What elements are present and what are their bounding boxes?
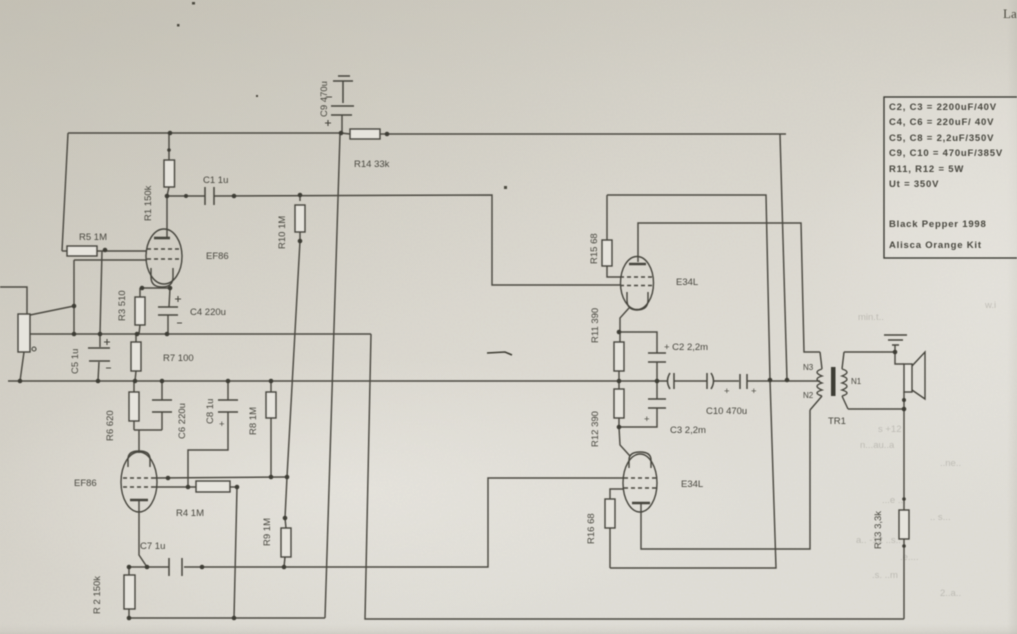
svg-text:R11 390: R11 390 [590, 308, 601, 343]
junction node 341,133 [339, 131, 344, 136]
tube V4 anode bar [632, 502, 650, 505]
junction node 105,250 [103, 248, 108, 253]
svg-text:R3 510: R3 510 [117, 290, 128, 321]
junction node 658,381 [655, 379, 660, 384]
junction node 167,196 [165, 194, 170, 199]
wire R4 node down to bus A [234, 487, 237, 618]
junction node 20,381 [18, 379, 23, 384]
wire long vertical from C9 node to bottom bus A [325, 134, 340, 618]
junction node 147,567 [145, 565, 150, 570]
wire R6 bottom lead [133, 421, 135, 430]
ground bus between C10 plates [714, 380, 739, 382]
vacuum tubes [121, 229, 657, 512]
svg-text:R12 390: R12 390 [590, 411, 601, 447]
svg-text:R6 620: R6 620 [105, 410, 116, 441]
svg-text:R1 150k: R1 150k [143, 185, 154, 221]
resistor R15 [602, 240, 612, 266]
wire R14 left lead [341, 133, 350, 134]
wire R13 bottom lead [903, 539, 905, 619]
wire R1 bottom to tube anode [167, 187, 169, 238]
junction node 300,241 [298, 239, 303, 244]
wire R1 top lead [168, 133, 170, 160]
junction node 237,487 [235, 485, 240, 490]
svg-text:Black Pepper 1998: Black Pepper 1998 [889, 219, 987, 230]
resistor R1 [164, 160, 175, 187]
svg-text:R10 1M: R10 1M [277, 216, 288, 249]
component value labels horizontal [74, 159, 862, 552]
wire secondary bottom to speaker column [848, 408, 904, 410]
capacitor C6 [152, 400, 172, 412]
junction node 287,477 [285, 475, 290, 480]
resistor R8 [266, 392, 276, 418]
wire R15 top lead [606, 195, 608, 240]
junction node 170,288 [168, 286, 173, 291]
svg-text:+: + [724, 386, 730, 397]
tube V2 anode bar [130, 499, 148, 502]
paper specks [177, 2, 507, 189]
wire R4 right lead [230, 486, 237, 488]
svg-text:R7 100: R7 100 [163, 353, 194, 364]
svg-text:R 2 150k: R 2 150k [92, 576, 103, 614]
svg-text:C10 470u: C10 470u [706, 406, 747, 417]
component bodies [18, 129, 909, 609]
wire C4 bottom lead [167, 315, 169, 334]
wire C8 bottom lead and L to grid [188, 412, 228, 487]
wire R7 bottom lead [135, 371, 136, 381]
TR1 core bar [831, 367, 836, 396]
svg-text:E34L: E34L [681, 479, 703, 490]
wire EF86a cathode bar line [140, 287, 172, 289]
svg-text:C9 470u: C9 470u [319, 81, 330, 117]
ground bus to transformer center tap [747, 380, 820, 382]
svg-text:n...au..a: n...au..a [860, 440, 895, 451]
wire R16 bottom lead [609, 528, 611, 568]
tube V3 anode bar [629, 263, 646, 266]
tube EF86 V1 envelope [146, 229, 182, 284]
wire C5 bottom lead [98, 362, 99, 381]
junction node 74,306 [72, 304, 77, 309]
resistor R7 [131, 342, 141, 371]
pencil mark [487, 352, 512, 355]
junction node 167,334 [165, 332, 170, 337]
junction node 142,288 [140, 286, 145, 291]
component value labels rotated [70, 81, 884, 614]
capacitor C1 [205, 187, 214, 205]
wire secondary top to ground and speaker [844, 351, 895, 353]
wire R5 node down to C5 top [100, 251, 102, 334]
wire speaker bottom lead [903, 392, 905, 409]
svg-text:C1 1u: C1 1u [203, 175, 228, 186]
parts list box [884, 97, 1017, 258]
svg-text:C6 220u: C6 220u [177, 403, 188, 439]
resistor R4 [196, 481, 230, 492]
junction node 904,546 [902, 544, 906, 548]
TR1 secondary winding [842, 352, 848, 409]
svg-text:R8 1M: R8 1M [248, 407, 259, 435]
junction node 137,334 [135, 332, 140, 337]
tube V2 grid dashes [123, 478, 156, 487]
svg-text:Alisca Orange Kit: Alisca Orange Kit [889, 240, 982, 251]
ground symbol [884, 335, 907, 345]
svg-text:R4 1M: R4 1M [176, 508, 204, 519]
wire R2 bottom lead [128, 609, 130, 618]
svg-text:R9 1M: R9 1M [262, 518, 273, 546]
resistor R6 [129, 392, 139, 421]
junction node 271,477 [269, 475, 274, 480]
junction node 300,195 [298, 193, 303, 198]
svg-text:C5 1u: C5 1u [70, 349, 81, 374]
resistor R9 [281, 528, 291, 557]
svg-text:R11, R12 = 5W: R11, R12 = 5W [889, 164, 964, 175]
svg-text:TR1: TR1 [828, 416, 846, 427]
C4 polarity [175, 296, 182, 323]
capacitor C2 [648, 353, 666, 362]
junction node 202,567 [200, 565, 205, 570]
wire speaker top lead [895, 352, 904, 364]
wire R12 top lead [618, 381, 620, 389]
svg-text:+ C2 2,2m: + C2 2,2m [664, 342, 708, 353]
wire upper E34L anode up to wire C [638, 223, 820, 352]
wire R15 bottom lead [607, 266, 621, 277]
svg-text:R16 68: R16 68 [586, 513, 597, 544]
wire top rail B+ [68, 132, 341, 134]
svg-text:EF86: EF86 [74, 478, 97, 489]
junction node 285,518 [283, 516, 288, 521]
wire C2 bottom lead [656, 362, 658, 381]
svg-text:C7 1u: C7 1u [140, 541, 165, 552]
svg-text:.e....: .e.... [900, 552, 918, 563]
junction node 188,487 [186, 485, 191, 490]
wire C8 top lead [227, 381, 229, 400]
svg-text:N3: N3 [803, 363, 814, 372]
wire R5 left lead [62, 250, 67, 252]
resistor R10 [295, 205, 305, 232]
wire R6 top lead [133, 381, 135, 392]
wire pot bottom to ground bus [20, 352, 24, 381]
svg-text:+: + [219, 419, 225, 430]
wire R2 top lead [128, 567, 130, 575]
capacitor C10 plate pair 2 [740, 374, 747, 389]
junction node 234,618 [232, 616, 237, 621]
capacitor Ca on bus [668, 373, 675, 389]
junction node 904,400 [902, 398, 906, 402]
svg-text:.s. ..m: .s. ..m [872, 570, 898, 581]
junction node 162,381 [160, 379, 165, 384]
resistor R14 [350, 129, 380, 139]
wire input line top left [0, 287, 27, 314]
tube E34L V4 envelope [623, 454, 657, 512]
wire R12 bottom to lower E34L cathode [619, 418, 630, 456]
wire lower EF86 anode down to C7 line [139, 500, 147, 567]
wire C5 top lead [99, 334, 101, 347]
wire A: B+ rail right drop to bus [780, 134, 787, 380]
wire C4 top lead [169, 288, 170, 307]
resistor R2 [124, 575, 135, 609]
svg-text:C9, C10 = 470uF/385V: C9, C10 = 470uF/385V [889, 148, 1003, 159]
TR1 primary winding [810, 352, 822, 410]
wire C1 line right to corner and upper E34L grid [214, 195, 621, 285]
ground bus y381 [8, 380, 667, 382]
capacitor C3 [648, 399, 666, 408]
wire pot wiper line y334 [30, 333, 371, 335]
resistor R3 [135, 297, 145, 325]
svg-text:La: La [1003, 6, 1017, 21]
wire R9 bottom lead [284, 557, 285, 567]
junction node 619,381 [617, 379, 622, 384]
wire R8 top lead [270, 381, 272, 392]
wire C3 top lead [656, 381, 658, 399]
resistor R13 [899, 510, 909, 539]
wire R7 top lead [135, 334, 137, 342]
junction node 770,380 [768, 378, 773, 383]
svg-text:EF86: EF86 [206, 251, 229, 262]
svg-text:R14 33k: R14 33k [354, 159, 390, 170]
junction node 787,380 [785, 378, 790, 383]
wire R10 column top [299, 195, 301, 201]
junction node 168,133 [168, 131, 173, 136]
svg-text:...e ...: ...e ... [882, 495, 906, 506]
wire left rail down to R5 left [62, 133, 68, 251]
wire y260 to tube [74, 259, 147, 261]
tube EF86 V2 envelope [121, 452, 157, 512]
svg-text:C2, C3 = 2200uF/40V: C2, C3 = 2200uF/40V [889, 102, 997, 113]
potentiometer wiper circle [32, 347, 36, 351]
resistor R5 [67, 246, 97, 256]
wire R8 bottom lead [270, 418, 272, 477]
capacitor C4 [158, 307, 178, 315]
wire lower E34L anode to transformer N2 [641, 410, 810, 549]
junction node 168,478 [166, 476, 171, 481]
wire grid line y478 lower EF86 [155, 477, 287, 478]
junction node 98,381 [96, 379, 101, 384]
tube V4 grid dashes [624, 478, 656, 488]
svg-text:N2: N2 [803, 391, 814, 400]
potentiometer P1 body [18, 314, 30, 352]
svg-text:R5 1M: R5 1M [79, 232, 107, 243]
transformer TR1 [810, 352, 848, 410]
svg-text:R15 68: R15 68 [589, 233, 600, 264]
junction node 129,567 [127, 565, 132, 570]
wire R14 right lead [380, 133, 387, 135]
junction node 135,381 [133, 379, 138, 384]
svg-text:w.i: w.i [984, 300, 996, 311]
resistor R12 [614, 389, 624, 418]
wire C3 bottom lead [619, 408, 657, 427]
tube V1 anode bar [154, 237, 170, 240]
svg-text:E34L: E34L [676, 277, 698, 288]
svg-text:N1: N1 [851, 377, 862, 386]
svg-text:.. s...: .. s... [930, 512, 951, 523]
ground bus right section [674, 380, 707, 382]
resistor R16 [605, 499, 615, 528]
junction node 100,334 [98, 332, 103, 337]
wire C9 stub junction [341, 115, 343, 133]
svg-text:2..a..: 2..a.. [940, 588, 961, 599]
svg-text:min.t..: min.t.. [858, 312, 884, 323]
wire upper E34L cathode to R11 [620, 308, 629, 342]
junction node 74,334 [72, 332, 77, 337]
junction node 271,381 [269, 379, 274, 384]
wire R10 to R9 column [285, 228, 300, 528]
capacitor C8 [218, 400, 238, 412]
bleed-through faint text [856, 300, 996, 599]
wire C2 top lead [620, 332, 657, 353]
bottom bus A [129, 617, 325, 619]
svg-text:+: + [644, 414, 650, 425]
junction node 186,196 [184, 194, 188, 198]
polarity marks [104, 97, 757, 430]
wire R3 top lead [139, 288, 141, 297]
wire C6 bottom lead [161, 412, 163, 430]
tube V1 cathode cup [151, 268, 173, 287]
junction node 284,567 [282, 565, 287, 570]
wire grid line y487 to R4 [155, 486, 196, 488]
speaker LS1 [904, 352, 925, 399]
capacitor C7 [169, 558, 182, 576]
wire R11 bottom lead [618, 371, 620, 381]
capacitor plates [88, 76, 747, 576]
wire R13 top lead [903, 409, 905, 510]
tube V2 cathode cup top [128, 451, 150, 467]
tube E34L V3 envelope [621, 257, 654, 310]
bottom bus B to R13 [365, 334, 904, 619]
svg-text:Ut = 350V: Ut = 350V [889, 179, 939, 190]
svg-text:C8 1u: C8 1u [205, 399, 216, 424]
svg-text:..ne..: ..ne.. [940, 458, 961, 469]
wire ground stem [894, 345, 896, 352]
wire cathode node to lower EF86 top [134, 429, 162, 431]
wire B screen rail: R15 top across right down and to R16 [607, 195, 776, 568]
capacitor C5 [88, 348, 110, 361]
wire C6 top lead [161, 381, 163, 400]
capacitor C10 plate pair 1 [707, 373, 714, 389]
wire grid column x74 [73, 260, 75, 334]
capacitor C9 [331, 76, 354, 115]
svg-text:a.. -12 ..s..: a.. -12 ..s.. [856, 535, 901, 546]
tube V3 grid dashes [620, 277, 655, 286]
svg-text:C5, C8 = 2,2uF/350V: C5, C8 = 2,2uF/350V [889, 133, 994, 144]
wire R5 right lead to tube grid [97, 250, 147, 252]
svg-text:C4 220u: C4 220u [190, 307, 226, 318]
junction node 619,427 [617, 425, 622, 430]
wire R16 top lead to screen [610, 489, 623, 499]
svg-text:C4, C6 = 220uF/ 40V: C4, C6 = 220uF/ 40V [889, 117, 994, 128]
junction node 904,409 [902, 407, 907, 412]
wire C1 line left [167, 195, 205, 197]
junction node 904,499 [902, 497, 906, 501]
wire pot top to grid column slant [30, 306, 74, 315]
wire C7 line right to corner up and lower E34L grid [184, 478, 624, 567]
svg-text:C3 2,2m: C3 2,2m [670, 425, 706, 436]
wire R3 bottom lead [139, 325, 140, 334]
tube V4 cathode cup top [629, 452, 651, 468]
junction node 228,381 [226, 379, 231, 384]
resistor R11 [614, 342, 624, 371]
tube V1 grid dashes [147, 249, 180, 259]
svg-text:s +12: s +12 [878, 424, 902, 435]
junction node 234,196 [232, 194, 237, 199]
wire C7 line left [129, 566, 169, 568]
junction node 129,618 [127, 616, 132, 621]
svg-text:+: + [751, 386, 757, 397]
junction node 895,352 [893, 350, 898, 355]
C9 polarity [325, 97, 332, 126]
junction node 387,134 [385, 132, 390, 137]
C5 polarity [104, 339, 111, 368]
tube V3 cathode cup [627, 292, 648, 310]
